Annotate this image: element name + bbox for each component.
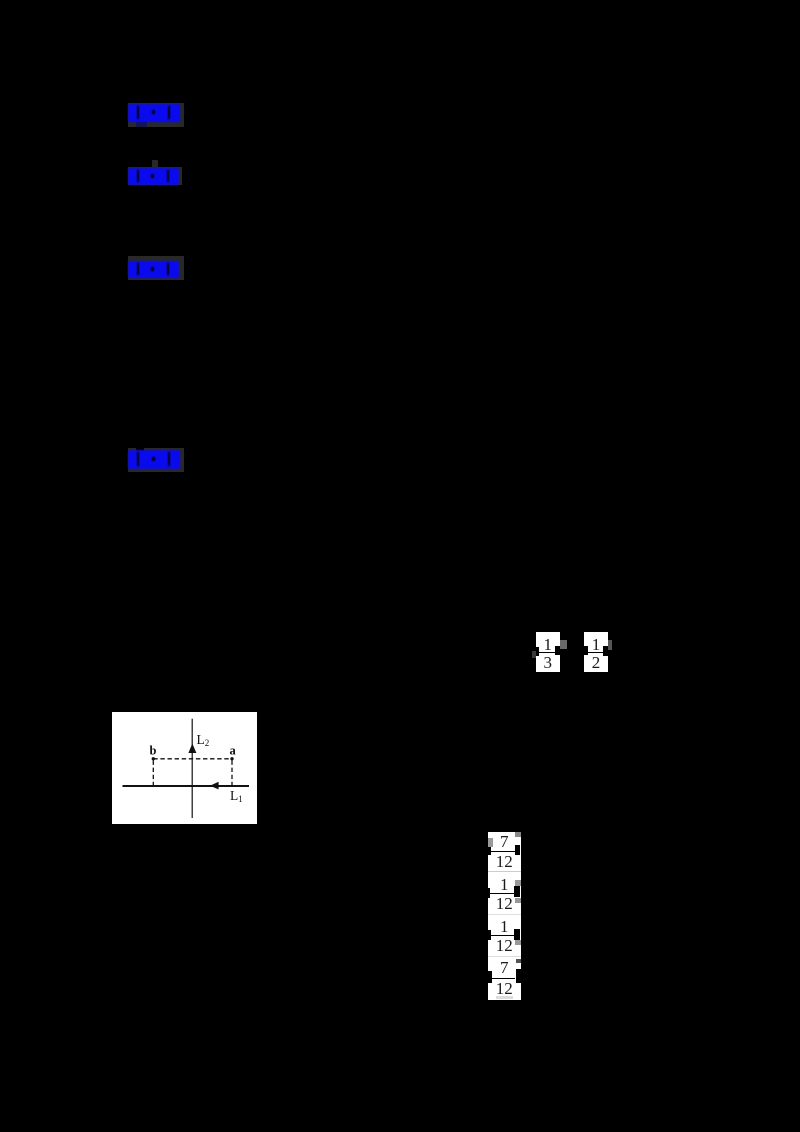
header highlight 2 [128, 167, 182, 185]
horizontal axis L1 [123, 785, 250, 787]
header blue text 3 [128, 261, 179, 278]
fraction image 7/12 (fourth) [488, 959, 521, 976]
dashed vertical from b [152, 761, 154, 786]
fraction image 1/12 (third) [488, 918, 521, 935]
dashed vertical from a [231, 761, 233, 786]
stacked fraction column background [488, 832, 521, 1001]
fraction image 1/2 [584, 632, 608, 672]
fraction image 1/3 [536, 632, 560, 672]
point b dot [152, 757, 155, 760]
header highlight 1 [128, 103, 184, 127]
fraction image 1/12 (second) [488, 876, 521, 893]
header blue text 4 [128, 450, 180, 469]
header highlight 3 [128, 256, 184, 280]
dashed line a-b [153, 758, 232, 760]
point a dot [230, 757, 233, 760]
up arrowhead on L2 [188, 744, 196, 754]
fraction image 7/12 (first) [488, 833, 521, 850]
header blue text 1 [136, 121, 147, 127]
figure: coordinate axes with lines L1, L2, points a and b [112, 712, 257, 824]
header blue text 2 [128, 168, 179, 185]
left arrowhead on L1 [210, 782, 219, 790]
svg-text:b: b [150, 744, 157, 758]
svg-text:a: a [230, 744, 237, 758]
header highlight 4 [128, 448, 184, 472]
vertical axis [191, 719, 193, 818]
